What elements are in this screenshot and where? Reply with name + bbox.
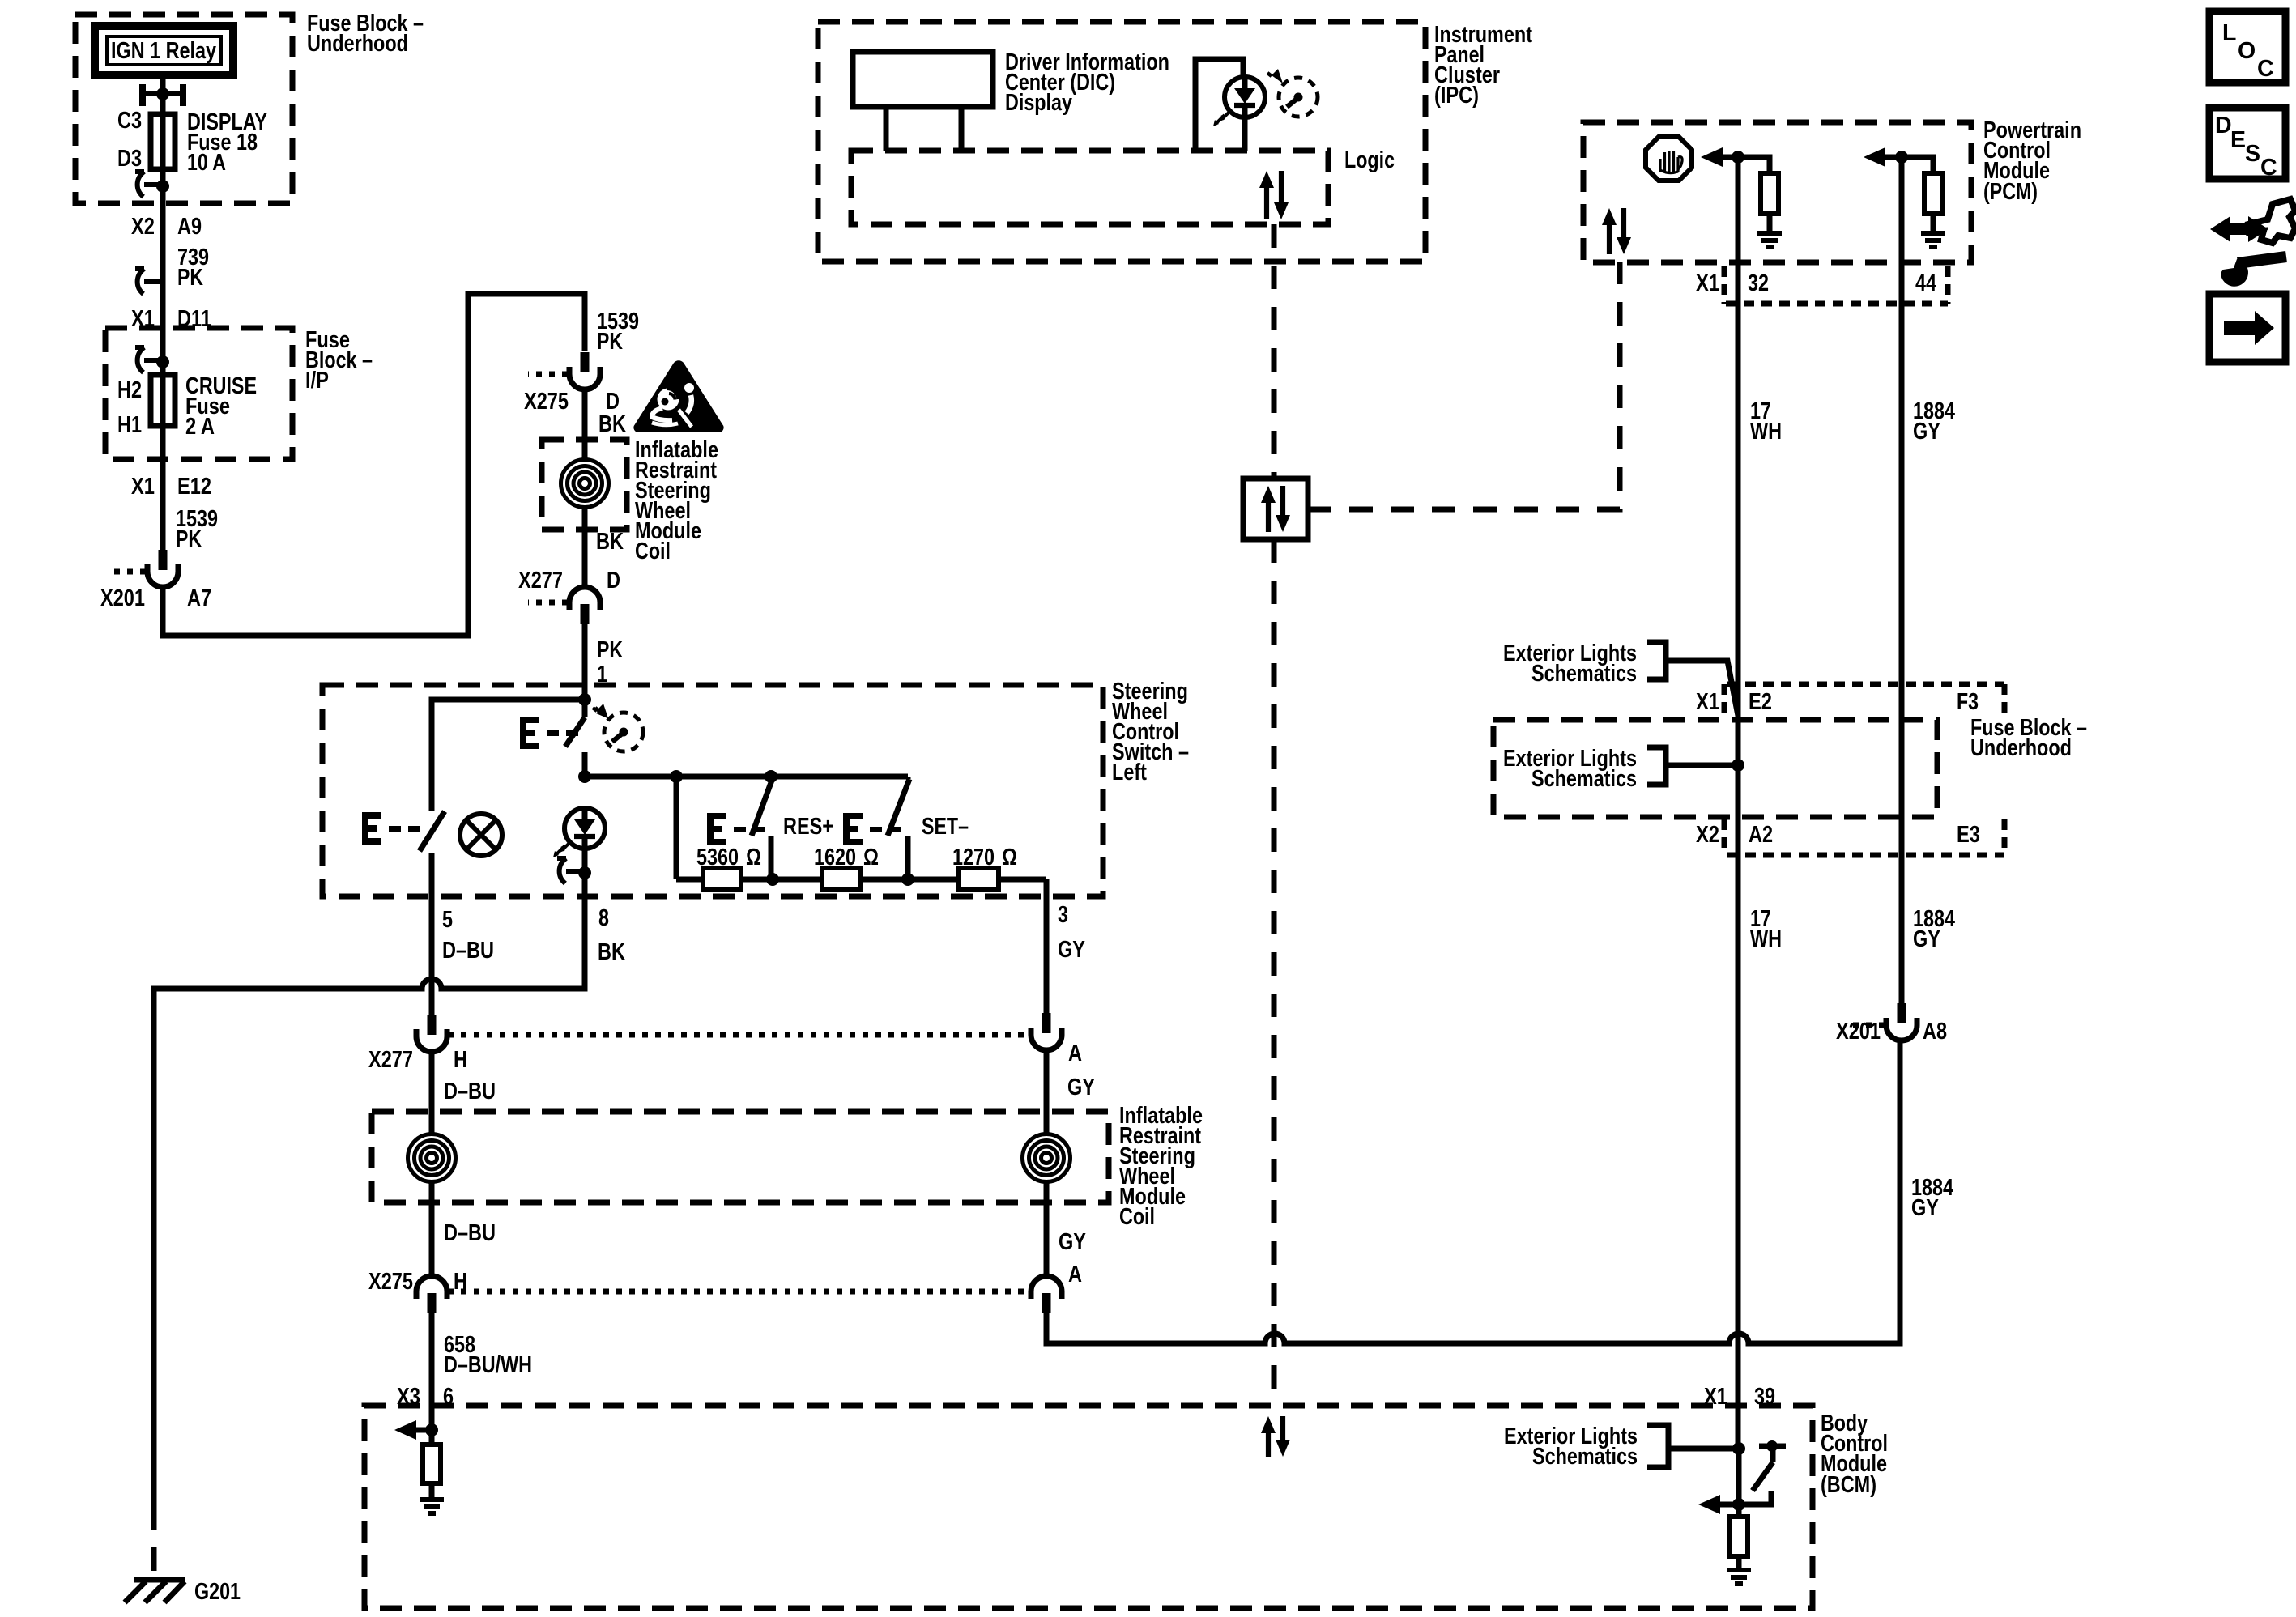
resistor X3 pulldown [423, 1445, 441, 1483]
label exterior lights schematics (BCM) [1504, 1423, 1638, 1470]
wire PCM WH internal [1723, 157, 1770, 173]
arrow into stop (WH) [1701, 147, 1723, 167]
coil box (bottom) [372, 1112, 1109, 1202]
pin label X3 6 [397, 1384, 454, 1410]
wire resistor to ground [1767, 214, 1773, 233]
connector X275 D [569, 352, 600, 389]
svg-text:C3: C3 [117, 108, 142, 134]
svg-text:32: 32 [1748, 270, 1769, 296]
svg-text:Schematics: Schematics [1532, 1444, 1638, 1470]
svg-text:1270: 1270 [952, 845, 995, 870]
svg-text:D–BU: D–BU [442, 938, 494, 964]
gauge icon (cruise switch) [593, 704, 643, 751]
wire pin 5 down (D-BU) [429, 896, 435, 1015]
connector X277 D [569, 587, 600, 624]
serial data arrows (box) [1261, 486, 1290, 532]
svg-text:2 A: 2 A [185, 414, 215, 440]
label X275 H [368, 1269, 467, 1295]
arrow BCM (left) [1698, 1495, 1720, 1514]
fuse block underhood box (right) [1493, 720, 1937, 817]
wire label 1539 PK (upper) [597, 309, 639, 355]
svg-text:E3: E3 [1957, 822, 1980, 848]
svg-text:1620: 1620 [814, 845, 856, 870]
svg-text:39: 39 [1754, 1384, 1775, 1410]
wire LED to pin 8 [582, 849, 588, 896]
svg-text:Underhood: Underhood [307, 31, 408, 57]
resistor 1620 ohm [822, 868, 861, 890]
svg-text:E2: E2 [1749, 689, 1772, 715]
svg-text:3: 3 [1058, 902, 1068, 928]
wire label 1884 GY (upper) [1913, 398, 1955, 445]
svg-text:Left: Left [1112, 760, 1147, 785]
connector X277 H [416, 1015, 447, 1052]
svg-text:BK: BK [598, 411, 626, 437]
bracket (upper ext lights) [1647, 642, 1666, 679]
wire X277 to switch pin 1 [582, 624, 588, 701]
svg-text:H1: H1 [117, 412, 142, 438]
wire branch to lamp switch [432, 700, 585, 811]
wire ladder top rail [585, 774, 908, 780]
coil steering wheel module (column) [561, 460, 609, 508]
svg-text:Coil: Coil [1119, 1204, 1155, 1230]
clip at 739 PK [135, 269, 163, 294]
coil box (column) [542, 440, 627, 530]
svg-text:44: 44 [1915, 270, 1936, 296]
connector X275 A [1031, 1276, 1062, 1313]
connector lead X277 [528, 600, 568, 606]
node RES+ bottom [766, 873, 779, 886]
wire 658 D-BU/WH [429, 1313, 435, 1430]
clip below LED [557, 858, 591, 883]
ground (PCM WH) [1757, 233, 1782, 247]
relay IGN 1 Relay [95, 26, 233, 75]
resistor PCM WH pullup [1761, 173, 1778, 214]
connector lead X277 row [448, 1032, 1029, 1038]
svg-text:Ω: Ω [863, 845, 879, 870]
svg-text:H2: H2 [117, 377, 142, 403]
wire LED to logic [1242, 117, 1248, 151]
actuation arrow (cruise switch) [595, 706, 607, 718]
pin label X1 E12 [131, 474, 211, 500]
wire GY to BCM run [1046, 1040, 1900, 1343]
icon LOC box [2209, 11, 2285, 83]
connector lead X275 [528, 372, 568, 377]
svg-text:A7: A7 [187, 585, 211, 611]
fuse block I/P box [105, 328, 292, 459]
value label 1620 ohm [814, 845, 879, 870]
svg-text:5360: 5360 [696, 845, 739, 870]
svg-text:E12: E12 [177, 474, 211, 500]
serial arrows (BCM) [1261, 1416, 1290, 1457]
lamp icon [460, 814, 502, 856]
wire to G201 (dashed) [151, 1506, 157, 1578]
svg-text:X277: X277 [518, 568, 563, 594]
stop hand icon [1646, 137, 1692, 181]
label exterior lights schematics (upper) [1503, 640, 1637, 687]
svg-text:IGN 1 Relay: IGN 1 Relay [111, 38, 216, 64]
svg-text:A: A [1068, 1262, 1082, 1287]
svg-text:D–BU: D–BU [444, 1220, 496, 1246]
svg-text:(IPC): (IPC) [1434, 83, 1479, 109]
svg-text:Ω: Ω [1002, 845, 1017, 870]
icon arrow box [2209, 294, 2285, 362]
label fuse block underhood [307, 11, 424, 57]
arrow X3 (left) [394, 1420, 416, 1440]
svg-text:C: C [2257, 56, 2274, 82]
svg-text:BK: BK [596, 529, 624, 555]
svg-text:X1: X1 [131, 474, 155, 500]
svg-text:GY: GY [1913, 926, 1940, 952]
wire fuse to X1 D11 [160, 169, 166, 375]
svg-text:C: C [2260, 155, 2277, 181]
wire PCM GY internal [1885, 157, 1933, 173]
wire X3 sense [429, 1430, 435, 1445]
node SET- bottom [901, 873, 914, 886]
resistor 5360 ohm [703, 868, 741, 890]
wire X275 to coil [582, 389, 588, 586]
linkage E (RES+) [707, 813, 765, 845]
fuse CRUISE 2A [151, 375, 175, 426]
clip in I/P box [135, 347, 169, 372]
LED indicator (IPC) [1213, 77, 1265, 126]
svg-text:Schematics: Schematics [1531, 661, 1637, 687]
svg-text:X1: X1 [1696, 689, 1719, 715]
serial data arrows (logic) [1259, 171, 1289, 219]
svg-text:BK: BK [598, 939, 625, 965]
svg-text:X275: X275 [368, 1269, 413, 1295]
switch RES+ [752, 778, 773, 879]
clip below fuse [135, 172, 169, 197]
svg-text:SET–: SET– [922, 814, 969, 840]
body control module box [364, 1406, 1813, 1608]
wire arrow line [1720, 1502, 1739, 1508]
svg-text:PK: PK [177, 265, 203, 291]
powertrain control module box [1583, 122, 1971, 262]
svg-text:D: D [2215, 113, 2232, 138]
gauge icon (IPC) [1267, 69, 1318, 117]
svg-text:O: O [2238, 38, 2256, 64]
linkage E (cruise switch) [520, 717, 578, 749]
serial arrows (PCM) [1602, 208, 1631, 254]
svg-text:F3: F3 [1957, 689, 1979, 715]
coil left (steering wheel module) [408, 1134, 456, 1182]
svg-text:Logic: Logic [1344, 147, 1395, 173]
wire arrow line X3 [416, 1428, 432, 1433]
node RES+ top [765, 770, 777, 783]
wire relay output [160, 75, 166, 114]
svg-text:D3: D3 [117, 146, 142, 172]
pin label X1 39 [1704, 1384, 1775, 1410]
svg-text:Ω: Ω [746, 845, 761, 870]
svg-text:X201: X201 [1836, 1019, 1881, 1045]
svg-text:D–BU: D–BU [444, 1079, 496, 1104]
node PCM GY [1895, 151, 1908, 164]
svg-text:D–BU/WH: D–BU/WH [444, 1352, 532, 1378]
svg-text:S: S [2245, 141, 2260, 167]
wire ladder left drop [674, 777, 679, 879]
svg-text:I/P: I/P [305, 368, 329, 394]
wire coil right (GY) [1044, 1050, 1050, 1276]
svg-text:A9: A9 [177, 214, 202, 240]
fuse block - underhood box [75, 15, 292, 203]
wire 17 WH [1736, 157, 1741, 1449]
node BCM arrow [1732, 1498, 1745, 1511]
wire resistor to ground (X3) [429, 1483, 435, 1500]
connector lead X275 row [448, 1289, 1029, 1295]
pin label X1 D11 [131, 306, 211, 332]
wire pin 3 down [1044, 879, 1050, 1015]
wire label 658 D-BU/WH [444, 1332, 532, 1378]
resistor PCM GY pullup [1924, 173, 1942, 214]
svg-text:A8: A8 [1923, 1019, 1947, 1045]
svg-text:Underhood: Underhood [1970, 735, 2072, 761]
svg-text:PK: PK [176, 526, 202, 552]
svg-text:5: 5 [442, 907, 453, 933]
connector row X1 E2/F3 [1724, 684, 2004, 719]
svg-text:WH: WH [1750, 419, 1782, 445]
svg-text:X275: X275 [524, 389, 569, 415]
arrow into PCM (GY) [1864, 147, 1885, 167]
label instrument panel cluster [1434, 22, 1532, 109]
switch SET- [888, 777, 909, 879]
wire label 17 WH (upper) [1750, 398, 1782, 445]
svg-text:RES+: RES+ [783, 814, 833, 840]
serial data line to PCM [1308, 262, 1620, 509]
wire label 17 WH (lower) [1750, 906, 1782, 952]
svg-text:X277: X277 [368, 1047, 413, 1073]
DIC display legs [886, 107, 961, 151]
svg-text:D: D [607, 568, 620, 594]
wire cruise fuse to X201 [160, 426, 166, 550]
switch cruise on/off [565, 700, 585, 777]
linkage E (SET-) [843, 813, 901, 845]
svg-text:GY: GY [1059, 1229, 1086, 1255]
svg-text:Coil: Coil [635, 538, 671, 564]
svg-text:PK: PK [597, 329, 623, 355]
switch lamp (off/on) [420, 811, 445, 896]
connector X201 A8 [1886, 1003, 1917, 1040]
wire pin 8 to ground run (BK) [154, 896, 585, 1506]
node BCM input [1732, 1442, 1745, 1455]
wire ladder mid rail [676, 877, 1046, 883]
wire resistor to ground (GY) [1931, 214, 1936, 233]
label driver information center display [1005, 49, 1169, 116]
svg-text:Display: Display [1005, 90, 1072, 116]
label X277 H [368, 1047, 467, 1073]
serial data line to BCM [1272, 539, 1277, 1406]
svg-text:GY: GY [1058, 937, 1085, 963]
svg-text:X1: X1 [1704, 1384, 1727, 1410]
icon DESC box [2209, 108, 2285, 181]
node ext lights junction [1732, 759, 1744, 772]
svg-text:H: H [454, 1047, 467, 1073]
label X277 D [518, 568, 620, 594]
wire resistor to ground (BCM) [1736, 1556, 1742, 1570]
label powertrain control module [1983, 117, 2081, 205]
switch BCM [1739, 1440, 1786, 1504]
resistor 1270 ohm [959, 868, 999, 890]
ground (X3 BCM) [420, 1500, 444, 1513]
wire label 1539 PK [176, 506, 218, 552]
node X3 input [425, 1423, 438, 1436]
svg-text:10 A: 10 A [187, 150, 226, 176]
svg-text:L: L [2222, 20, 2236, 46]
node pin1 junction [578, 693, 591, 706]
label X201 A8 [1836, 1019, 1947, 1045]
connector X201 A7 [147, 550, 178, 587]
svg-text:8: 8 [598, 905, 609, 931]
svg-text:E: E [2230, 127, 2246, 153]
coil right (steering wheel module) [1023, 1134, 1071, 1182]
DIC display [853, 52, 993, 107]
svg-text:WH: WH [1750, 926, 1782, 952]
svg-text:GY: GY [1911, 1195, 1939, 1221]
LED indicator (switch) [553, 808, 605, 857]
fuse F18 DISPLAY 10A [151, 114, 175, 169]
airbag warning triangle [633, 360, 723, 432]
svg-text:(BCM): (BCM) [1821, 1472, 1876, 1498]
wire label 1884 GY (third) [1911, 1175, 1953, 1221]
bracket (BCM ext lights) [1647, 1425, 1668, 1467]
svg-text:X1: X1 [1696, 270, 1719, 296]
label exterior lights schematics (lower) [1503, 746, 1637, 792]
label X201 A7 [100, 585, 211, 611]
value label 5360 ohm [696, 845, 761, 870]
pin label X2 A9 [131, 214, 202, 240]
value label 1270 ohm [952, 845, 1017, 870]
serial data line IPC to splice box [1272, 224, 1277, 479]
svg-text:X2: X2 [1696, 822, 1719, 848]
connector X275 H [416, 1276, 447, 1313]
linkage E (lamp switch) [362, 812, 420, 845]
label body control module [1821, 1411, 1888, 1498]
icon wrench/part [2210, 199, 2295, 287]
svg-text:GY: GY [1067, 1074, 1095, 1100]
ground G201 [125, 1580, 185, 1602]
ground (BCM) [1727, 1570, 1751, 1584]
connector lead X201 [111, 569, 146, 575]
wire label 739 PK [177, 245, 209, 291]
logic box [851, 151, 1328, 224]
relay feed bus node [139, 84, 186, 106]
bracket (lower ext lights) [1647, 747, 1666, 785]
svg-text:(PCM): (PCM) [1983, 179, 2038, 205]
wire 1884 GY [1899, 157, 1905, 1006]
svg-text:Schematics: Schematics [1531, 766, 1637, 792]
wire ext lights to node [1666, 763, 1738, 768]
label inflatable restraint steering wheel module coil (bottom) [1119, 1103, 1203, 1230]
wire X201 to switch feed (1539 PK) [163, 294, 585, 636]
svg-text:G201: G201 [194, 1579, 241, 1605]
label CRUISE Fuse 2 A [185, 373, 257, 440]
wire ext lights to E2 [1666, 661, 1738, 716]
steering wheel control switch box [322, 685, 1103, 896]
label fuse block I/P [305, 327, 373, 394]
svg-text:X201: X201 [100, 585, 145, 611]
connector row X2 A2/E3 [1724, 819, 2004, 855]
wire coil left (D-BU) [429, 1052, 435, 1276]
label steering wheel control switch - left [1112, 679, 1189, 785]
wire ext lights to BCM node [1668, 1446, 1739, 1452]
label DISPLAY Fuse 18 10 A [187, 109, 267, 176]
wire LED loop (IPC) [1195, 59, 1243, 151]
instrument panel cluster box [818, 22, 1425, 262]
node PCM WH [1732, 151, 1744, 164]
svg-text:GY: GY [1913, 419, 1940, 445]
wire label 1884 GY (lower) [1913, 906, 1955, 952]
label fuse block underhood (right) [1970, 715, 2087, 761]
connector X277 A [1031, 1013, 1062, 1050]
resistor BCM pulldown [1730, 1517, 1748, 1556]
svg-text:A: A [1068, 1040, 1082, 1066]
connector row X1 32/44 (PCM) [1724, 266, 1948, 304]
svg-text:X2: X2 [131, 214, 155, 240]
ground (PCM GY) [1921, 233, 1945, 247]
svg-text:A2: A2 [1749, 822, 1773, 848]
label inflatable restraint steering wheel module coil (top) [635, 437, 718, 564]
serial data box [1243, 479, 1308, 539]
node LED branch [578, 770, 591, 783]
connector lead X201 A8 [1851, 1023, 1885, 1028]
svg-text:PK: PK [597, 637, 623, 663]
wire BCM sense [1736, 1449, 1742, 1517]
label X275 D [524, 389, 620, 415]
node ladder left drop [670, 770, 683, 783]
